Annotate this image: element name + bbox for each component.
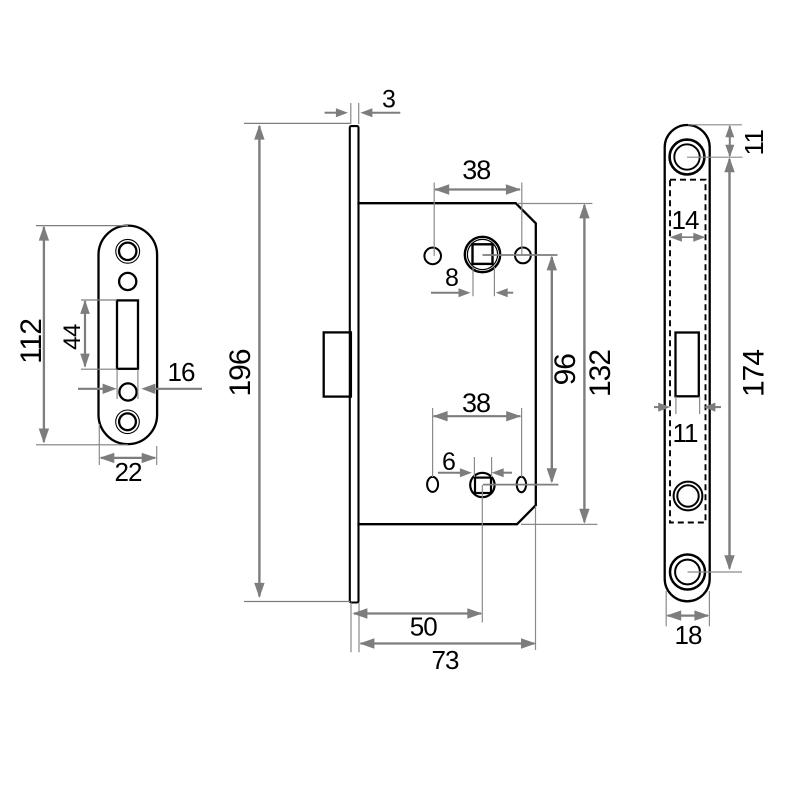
- dimension 3 (faceplate thickness): [351, 103, 359, 124]
- dimension 96: [551, 257, 553, 482]
- svg-text:196: 196: [224, 349, 257, 396]
- dimension 112: [36, 226, 128, 445]
- svg-text:38: 38: [462, 155, 490, 185]
- lower right oval hole: [517, 477, 526, 492]
- bottom screw hole: [119, 413, 136, 430]
- dimension 38 bottom: [433, 408, 522, 477]
- case bottom extension: [521, 523, 597, 525]
- svg-text:14: 14: [672, 205, 699, 235]
- faceplate front outline: [665, 125, 710, 601]
- dimension 22: [99, 424, 156, 465]
- svg-text:22: 22: [115, 457, 142, 487]
- extension faceplate right bottom: [358, 603, 360, 653]
- bottom screw hole ring: [116, 410, 140, 434]
- dimension 174: [728, 159, 730, 569]
- latch bolt: [324, 332, 351, 396]
- centerline lower follower: [483, 484, 558, 486]
- dimension 14: [672, 236, 705, 238]
- extension plate top: [688, 124, 742, 126]
- dimension 73: [361, 642, 535, 644]
- upper right screw hole: [515, 248, 531, 264]
- dimension 18: [666, 591, 709, 626]
- case top extension: [517, 203, 592, 205]
- svg-text:3: 3: [382, 86, 396, 114]
- recess dashed outline: [670, 180, 706, 523]
- dimension 11 top: [729, 126, 731, 156]
- svg-text:18: 18: [675, 620, 702, 650]
- latch slot: [117, 300, 138, 368]
- middle screw hole outer: [674, 482, 703, 511]
- dimension 16: [117, 369, 138, 399]
- latch slot front: [676, 333, 699, 397]
- extension case right bottom: [535, 506, 537, 650]
- svg-text:174: 174: [738, 350, 771, 397]
- svg-text:11: 11: [739, 129, 769, 155]
- lower small hole: [119, 383, 136, 400]
- svg-text:132: 132: [584, 350, 617, 397]
- middle screw hole inner: [677, 485, 698, 506]
- svg-text:96: 96: [549, 354, 582, 386]
- svg-text:50: 50: [410, 612, 437, 642]
- dimension 38 top: [434, 183, 522, 256]
- dimension 50: [354, 612, 481, 614]
- bottom screw hole inner: [675, 560, 700, 585]
- spindle follower outer circle: [465, 237, 500, 272]
- strike plate outline: [99, 226, 158, 445]
- lock case outline: [357, 203, 535, 524]
- svg-text:44: 44: [59, 324, 86, 350]
- centerline top hole: [687, 156, 743, 158]
- spindle follower inner circle: [467, 239, 497, 269]
- svg-text:16: 16: [168, 357, 195, 387]
- upper small hole: [119, 273, 136, 290]
- spindle square hole: [473, 244, 493, 264]
- lower left oval hole: [427, 477, 438, 492]
- svg-text:112: 112: [15, 319, 48, 364]
- bottom screw hole outer: [670, 555, 705, 590]
- extension faceplate left bottom: [350, 603, 352, 653]
- faceplate side view: [350, 126, 359, 602]
- svg-text:6: 6: [442, 448, 456, 476]
- svg-text:38: 38: [462, 388, 490, 418]
- upper left screw hole: [424, 248, 441, 265]
- lower follower square: [475, 478, 491, 493]
- top screw hole ring: [116, 239, 140, 263]
- dimension 6: [474, 457, 491, 477]
- top screw hole outer: [670, 140, 705, 175]
- centerline upper follower: [483, 254, 558, 256]
- top screw hole: [119, 243, 136, 260]
- top screw hole inner: [674, 144, 699, 169]
- dimension 8: [473, 267, 494, 296]
- dimension 196: [244, 123, 350, 601]
- lower follower circle: [470, 473, 494, 497]
- dimension 132: [583, 205, 585, 522]
- dimension 11 middle: [676, 397, 700, 415]
- svg-text:73: 73: [432, 645, 459, 675]
- centerline bottom hole: [688, 571, 743, 573]
- svg-text:11: 11: [673, 418, 699, 448]
- dimension 44: [81, 300, 117, 369]
- svg-text:8: 8: [445, 264, 459, 292]
- extension from lower follower down: [481, 485, 483, 623]
